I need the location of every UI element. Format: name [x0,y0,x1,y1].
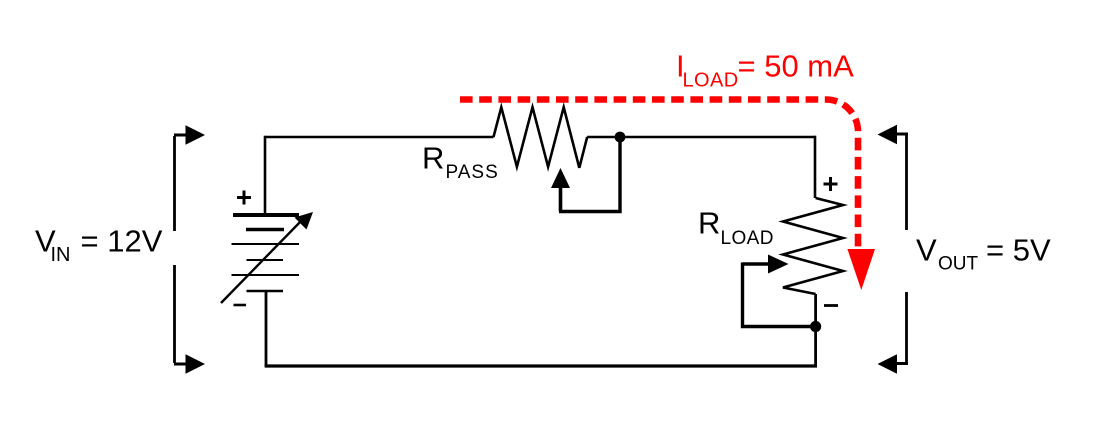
wire wiper R_LOAD to node [743,263,816,327]
battery plus sign [237,191,251,205]
bracket V_OUT vertical line [905,133,908,363]
battery minus sign [234,304,247,307]
wire top-right segment [587,136,815,139]
wire wiper R_PASS to node [559,140,620,212]
bracket V_IN bottom arrow [174,363,187,366]
svg-text:LOAD: LOAD [721,228,774,249]
wiper arrow of R_PASS [551,168,570,188]
battery B1 plate 6 short bottom [247,290,284,292]
wire right vertical top [814,136,817,198]
svg-text:PASS: PASS [446,162,499,183]
svg-text:LOAD: LOAD [683,70,739,92]
svg-text:= 5V: = 5V [986,233,1051,268]
R_LOAD minus sign [824,304,838,307]
svg-text:OUT: OUT [938,254,979,275]
resistor R_PASS zigzag [494,107,588,168]
wiper arrow of R_LOAD [768,255,789,274]
svg-text:= 50 mA: = 50 mA [738,49,855,84]
bracket V_OUT bottom arrow [894,362,908,365]
battery B1 plate 2 short thick [246,228,284,232]
resistor R_LOAD zigzag vertical [783,198,843,294]
node junction dot bottom [810,321,821,332]
current path I_LOAD red dashed line horizontal [460,100,858,248]
wire top-left segment [265,136,494,139]
wire left vertical top stub [264,136,267,215]
battery variable arrow diagonal [221,219,303,303]
wire bottom [265,364,817,367]
R_LOAD plus sign [824,177,838,191]
svg-text:V: V [916,233,937,268]
bracket V_IN vertical line [173,136,176,363]
bracket V_IN top arrow [174,134,187,137]
svg-text:IN: IN [51,244,71,266]
wire left vertical bottom stub [265,291,268,366]
svg-text:R: R [422,141,444,176]
bracket V_OUT top arrow [894,133,908,136]
svg-text:= 12V: = 12V [81,224,163,259]
current arrow red [847,249,875,290]
battery B1 plate 4 short thin [247,259,284,261]
battery B1 plate 1 long thick [233,213,299,217]
node junction dot top [615,132,626,143]
battery B1 plate 3 long thin [232,243,300,245]
svg-text:R: R [698,206,720,241]
battery B1 plate 5 long thin [232,274,300,276]
wire R_LOAD bottom stub [814,294,817,366]
